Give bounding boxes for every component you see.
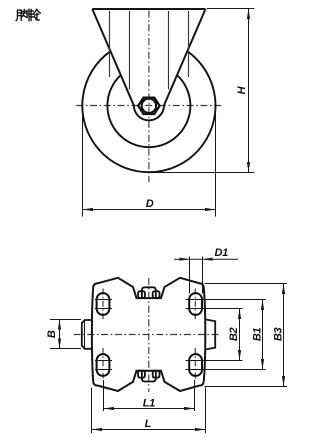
axle boss protruding right: [205, 319, 215, 349]
svg-text:B: B: [46, 330, 58, 338]
svg-text:D1: D1: [215, 247, 229, 259]
dimension B3: [205, 284, 288, 387]
slot centerlines vertical: [103, 289, 195, 381]
dimension L1: [104, 380, 195, 411]
horizontal centerline: [76, 105, 222, 107]
dimension L: [92, 388, 206, 434]
centerlines: [74, 334, 222, 336]
svg-text:B2: B2: [228, 327, 240, 341]
wheel protruding left: [82, 320, 93, 349]
dimension H: [151, 9, 254, 173]
dimension B1: [185, 300, 265, 370]
svg-text:B1: B1: [252, 327, 264, 341]
fork inner edge lines: [110, 11, 189, 90]
vertical centerline: [148, 11, 150, 183]
plate outline: [92, 278, 205, 391]
fork top plate: [92, 8, 205, 10]
kingpin nut top: [138, 287, 159, 298]
svg-text:D: D: [146, 198, 154, 210]
dimension B: [50, 320, 81, 349]
svg-text:L1: L1: [143, 397, 155, 409]
fork outline: slants + U arc around hub: [92, 9, 205, 120]
dimension B2 (ext lines double as right-slot cross ticks): [185, 309, 242, 361]
slot holes (stadium shapes): [97, 293, 202, 376]
wheel middle circle (clipped behind fork): [107, 75, 190, 147]
axle hexagon: [138, 98, 159, 114]
dimension D1: [174, 257, 238, 294]
axle circle: [142, 99, 156, 113]
wheel outer circle (clipped behind fork): [82, 51, 215, 172]
title 脚轮 (drawn strokes): [16, 9, 40, 20]
svg-text:H: H: [236, 85, 248, 94]
kingpin nut bottom: [138, 371, 159, 382]
slot cross ticks (left slots): [95, 300, 112, 370]
svg-text:B3: B3: [273, 327, 285, 341]
dimension D: [83, 114, 216, 217]
svg-text:L: L: [145, 418, 152, 430]
